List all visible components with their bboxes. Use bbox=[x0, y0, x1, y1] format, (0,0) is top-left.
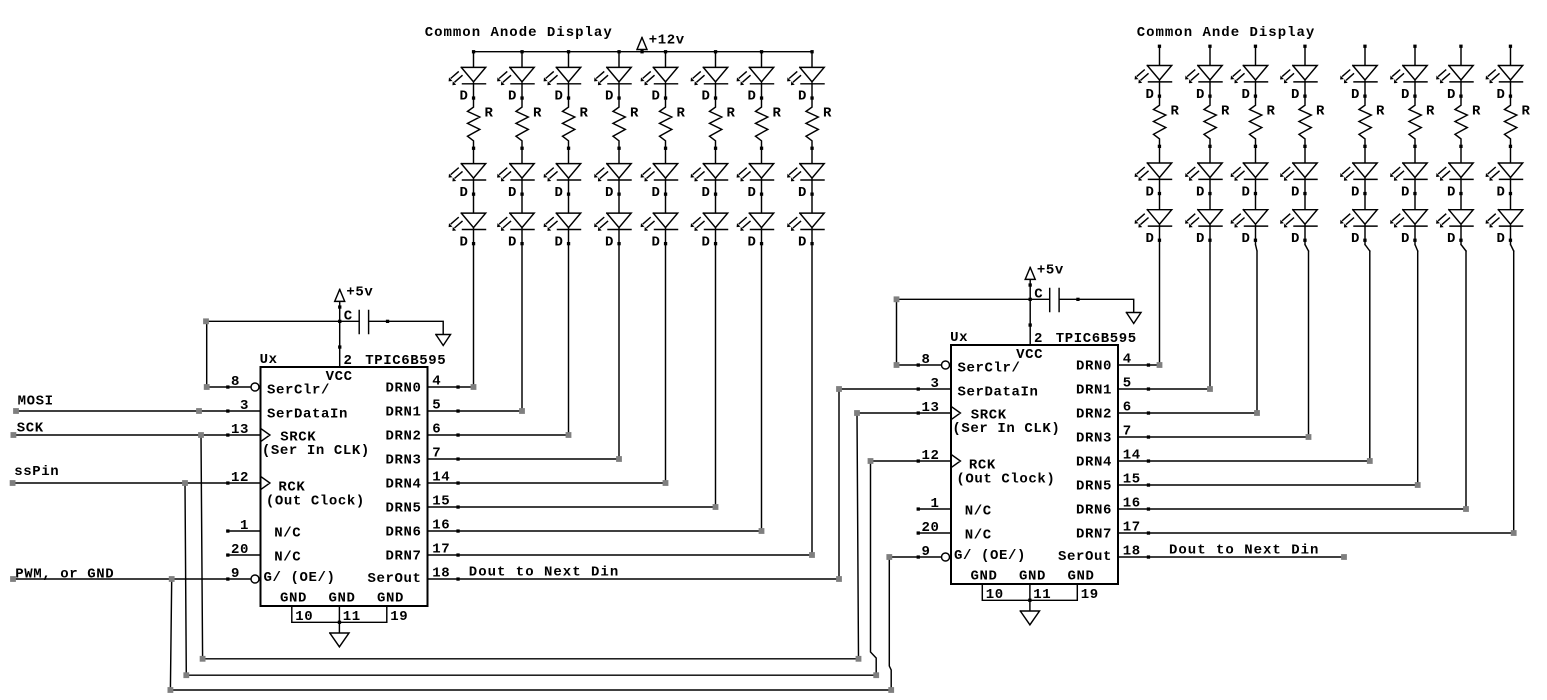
svg-text:Ux: Ux bbox=[260, 352, 278, 368]
svg-text:2: 2 bbox=[1034, 331, 1043, 347]
svg-text:17: 17 bbox=[432, 541, 450, 557]
svg-text:D: D bbox=[652, 234, 661, 250]
svg-text:D: D bbox=[1242, 87, 1251, 103]
svg-text:DRN2: DRN2 bbox=[1076, 407, 1112, 423]
svg-text:GND: GND bbox=[1067, 568, 1094, 584]
svg-text:D: D bbox=[748, 234, 757, 250]
svg-text:11: 11 bbox=[1033, 587, 1051, 603]
svg-text:D: D bbox=[555, 89, 564, 105]
svg-text:ssPin: ssPin bbox=[14, 464, 59, 480]
svg-text:GND: GND bbox=[970, 568, 997, 584]
svg-text:D: D bbox=[1497, 231, 1506, 247]
svg-text:+5v: +5v bbox=[346, 284, 373, 300]
svg-text:D: D bbox=[798, 89, 807, 105]
svg-text:3: 3 bbox=[240, 398, 249, 414]
svg-text:C: C bbox=[1034, 287, 1043, 303]
svg-text:DRN6: DRN6 bbox=[385, 525, 421, 541]
svg-text:8: 8 bbox=[921, 352, 930, 368]
svg-text:R: R bbox=[580, 106, 589, 122]
svg-text:D: D bbox=[1146, 87, 1155, 103]
svg-text:8: 8 bbox=[231, 374, 240, 390]
svg-text:SerDataIn: SerDataIn bbox=[267, 406, 348, 422]
svg-text:SerOut: SerOut bbox=[1058, 549, 1112, 565]
svg-text:6: 6 bbox=[1123, 399, 1132, 415]
svg-text:GND: GND bbox=[328, 590, 355, 606]
svg-text:6: 6 bbox=[432, 421, 441, 437]
svg-text:D: D bbox=[1351, 231, 1360, 247]
svg-text:D: D bbox=[1196, 184, 1205, 200]
svg-text:18: 18 bbox=[1123, 543, 1141, 559]
svg-text:SerClr/: SerClr/ bbox=[958, 360, 1021, 376]
svg-text:D: D bbox=[1447, 231, 1456, 247]
svg-text:12: 12 bbox=[231, 470, 249, 486]
svg-text:N/C: N/C bbox=[965, 504, 992, 520]
svg-text:1: 1 bbox=[240, 518, 249, 534]
svg-text:R: R bbox=[630, 106, 639, 122]
svg-text:D: D bbox=[605, 185, 614, 201]
svg-text:D: D bbox=[798, 234, 807, 250]
svg-text:13: 13 bbox=[921, 400, 939, 416]
svg-text:D: D bbox=[1146, 184, 1155, 200]
svg-text:D: D bbox=[702, 89, 711, 105]
svg-text:D: D bbox=[1291, 184, 1300, 200]
svg-text:D: D bbox=[1291, 231, 1300, 247]
svg-text:N/C: N/C bbox=[274, 526, 301, 542]
svg-text:DRN6: DRN6 bbox=[1076, 503, 1112, 519]
svg-text:+12v: +12v bbox=[649, 33, 685, 49]
svg-text:DRN1: DRN1 bbox=[385, 405, 421, 421]
svg-text:DRN1: DRN1 bbox=[1076, 383, 1112, 399]
svg-text:SerClr/: SerClr/ bbox=[267, 382, 330, 398]
svg-text:SCK: SCK bbox=[17, 421, 44, 437]
svg-text:D: D bbox=[1351, 87, 1360, 103]
svg-text:D: D bbox=[748, 185, 757, 201]
svg-text:7: 7 bbox=[1123, 423, 1132, 439]
svg-text:(Out Clock): (Out Clock) bbox=[956, 471, 1055, 487]
svg-text:15: 15 bbox=[1123, 471, 1141, 487]
svg-text:PWM, or GND: PWM, or GND bbox=[15, 567, 114, 583]
svg-text:(Ser In CLK): (Ser In CLK) bbox=[262, 443, 370, 459]
svg-text:1: 1 bbox=[930, 496, 939, 512]
svg-text:GND: GND bbox=[1019, 568, 1046, 584]
svg-text:D: D bbox=[605, 234, 614, 250]
svg-text:D: D bbox=[1447, 184, 1456, 200]
svg-text:Dout to Next Din: Dout to Next Din bbox=[469, 564, 619, 580]
svg-text:D: D bbox=[748, 89, 757, 105]
svg-text:DRN4: DRN4 bbox=[1076, 455, 1112, 471]
svg-text:C: C bbox=[344, 309, 353, 325]
svg-text:DRN0: DRN0 bbox=[1076, 359, 1112, 375]
svg-text:13: 13 bbox=[231, 422, 249, 438]
svg-text:R: R bbox=[485, 106, 494, 122]
svg-text:17: 17 bbox=[1123, 519, 1141, 535]
svg-text:10: 10 bbox=[986, 587, 1004, 603]
svg-text:D: D bbox=[1196, 231, 1205, 247]
svg-text:GND: GND bbox=[280, 590, 307, 606]
svg-text:11: 11 bbox=[343, 609, 361, 625]
svg-text:D: D bbox=[1146, 231, 1155, 247]
svg-text:D: D bbox=[702, 234, 711, 250]
svg-text:Dout to Next Din: Dout to Next Din bbox=[1169, 542, 1319, 558]
svg-text:14: 14 bbox=[432, 469, 450, 485]
svg-text:R: R bbox=[1171, 104, 1180, 120]
svg-text:20: 20 bbox=[921, 520, 939, 536]
svg-text:19: 19 bbox=[390, 609, 408, 625]
svg-text:(Out Clock): (Out Clock) bbox=[266, 493, 365, 509]
svg-text:Ux: Ux bbox=[950, 330, 968, 346]
svg-text:D: D bbox=[1196, 87, 1205, 103]
svg-text:D: D bbox=[1242, 231, 1251, 247]
svg-text:GND: GND bbox=[377, 590, 404, 606]
svg-text:D: D bbox=[1401, 184, 1410, 200]
svg-text:SerOut: SerOut bbox=[367, 571, 421, 587]
svg-text:D: D bbox=[1447, 87, 1456, 103]
svg-text:2: 2 bbox=[344, 353, 353, 369]
svg-text:15: 15 bbox=[432, 493, 450, 509]
svg-text:D: D bbox=[1497, 184, 1506, 200]
svg-text:4: 4 bbox=[432, 373, 441, 389]
svg-text:3: 3 bbox=[930, 376, 939, 392]
svg-text:D: D bbox=[460, 234, 469, 250]
svg-text:5: 5 bbox=[1123, 375, 1132, 391]
svg-text:D: D bbox=[1351, 184, 1360, 200]
svg-text:DRN0: DRN0 bbox=[385, 381, 421, 397]
svg-text:G/ (OE/): G/ (OE/) bbox=[264, 570, 336, 586]
svg-text:(Ser In CLK): (Ser In CLK) bbox=[952, 421, 1060, 437]
svg-text:N/C: N/C bbox=[965, 528, 992, 544]
svg-text:SerDataIn: SerDataIn bbox=[958, 384, 1039, 400]
svg-text:MOSI: MOSI bbox=[18, 394, 54, 410]
svg-text:D: D bbox=[460, 185, 469, 201]
svg-text:DRN7: DRN7 bbox=[385, 549, 421, 565]
svg-text:D: D bbox=[1401, 87, 1410, 103]
svg-text:D: D bbox=[1242, 184, 1251, 200]
svg-text:DRN2: DRN2 bbox=[385, 429, 421, 445]
svg-text:18: 18 bbox=[432, 565, 450, 581]
svg-text:DRN3: DRN3 bbox=[1076, 431, 1112, 447]
svg-text:D: D bbox=[605, 89, 614, 105]
svg-text:N/C: N/C bbox=[274, 550, 301, 566]
svg-text:D: D bbox=[555, 185, 564, 201]
svg-text:R: R bbox=[677, 106, 686, 122]
svg-text:20: 20 bbox=[231, 542, 249, 558]
svg-text:5: 5 bbox=[432, 397, 441, 413]
svg-text:D: D bbox=[555, 234, 564, 250]
svg-text:R: R bbox=[1426, 104, 1435, 120]
svg-text:7: 7 bbox=[432, 445, 441, 461]
svg-text:G/ (OE/): G/ (OE/) bbox=[954, 548, 1026, 564]
svg-text:DRN7: DRN7 bbox=[1076, 527, 1112, 543]
svg-text:4: 4 bbox=[1123, 351, 1132, 367]
svg-text:DRN3: DRN3 bbox=[385, 453, 421, 469]
svg-text:R: R bbox=[1267, 104, 1276, 120]
svg-text:D: D bbox=[508, 89, 517, 105]
svg-text:DRN5: DRN5 bbox=[1076, 479, 1112, 495]
svg-text:R: R bbox=[727, 106, 736, 122]
svg-text:R: R bbox=[1221, 104, 1230, 120]
svg-text:+5v: +5v bbox=[1037, 262, 1064, 278]
svg-text:D: D bbox=[508, 234, 517, 250]
svg-text:10: 10 bbox=[295, 609, 313, 625]
svg-text:R: R bbox=[533, 106, 542, 122]
svg-text:D: D bbox=[702, 185, 711, 201]
svg-text:D: D bbox=[508, 185, 517, 201]
svg-text:D: D bbox=[652, 89, 661, 105]
svg-text:9: 9 bbox=[921, 544, 930, 560]
svg-text:D: D bbox=[798, 185, 807, 201]
svg-text:16: 16 bbox=[432, 517, 450, 533]
svg-text:Common Ande Display: Common Ande Display bbox=[1137, 25, 1316, 41]
svg-text:TPIC6B595: TPIC6B595 bbox=[365, 353, 446, 369]
svg-text:D: D bbox=[1291, 87, 1300, 103]
svg-text:R: R bbox=[1472, 104, 1481, 120]
svg-text:DRN4: DRN4 bbox=[385, 477, 421, 493]
svg-text:D: D bbox=[652, 185, 661, 201]
svg-text:R: R bbox=[1376, 104, 1385, 120]
svg-text:19: 19 bbox=[1081, 587, 1099, 603]
svg-text:VCC: VCC bbox=[326, 369, 353, 385]
svg-text:9: 9 bbox=[231, 566, 240, 582]
svg-text:R: R bbox=[1316, 104, 1325, 120]
svg-text:16: 16 bbox=[1123, 495, 1141, 511]
svg-text:D: D bbox=[1401, 231, 1410, 247]
svg-text:R: R bbox=[773, 106, 782, 122]
svg-text:12: 12 bbox=[921, 448, 939, 464]
svg-text:DRN5: DRN5 bbox=[385, 501, 421, 517]
svg-text:D: D bbox=[460, 89, 469, 105]
svg-text:Common Anode Display: Common Anode Display bbox=[425, 25, 613, 41]
svg-text:D: D bbox=[1497, 87, 1506, 103]
svg-text:R: R bbox=[1522, 104, 1531, 120]
svg-text:14: 14 bbox=[1123, 447, 1141, 463]
svg-text:R: R bbox=[823, 106, 832, 122]
svg-text:TPIC6B595: TPIC6B595 bbox=[1056, 331, 1137, 347]
svg-text:VCC: VCC bbox=[1016, 347, 1043, 363]
